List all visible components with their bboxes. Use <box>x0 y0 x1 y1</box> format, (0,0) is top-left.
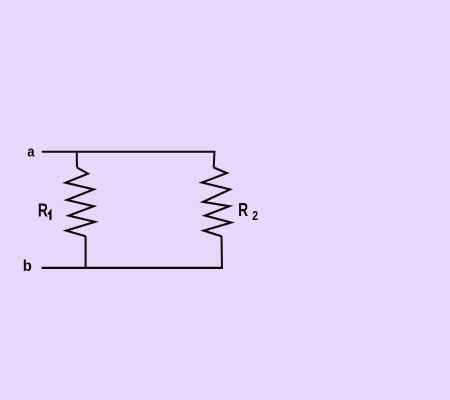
svg-text:2: 2 <box>252 209 258 223</box>
wire top rail a <box>42 151 215 153</box>
wire R1 top lead <box>76 151 78 168</box>
svg-text:R: R <box>238 200 248 220</box>
svg-text:a: a <box>27 143 34 160</box>
wire R2 bottom lead <box>221 236 224 268</box>
svg-text:b: b <box>23 258 32 276</box>
resistor R2 <box>202 168 231 237</box>
wire R2 top lead <box>213 151 216 168</box>
svg-text:R: R <box>38 200 48 220</box>
wire R1 bottom lead <box>85 236 87 269</box>
wire bottom rail b <box>42 267 223 269</box>
resistor R1 <box>66 168 95 237</box>
